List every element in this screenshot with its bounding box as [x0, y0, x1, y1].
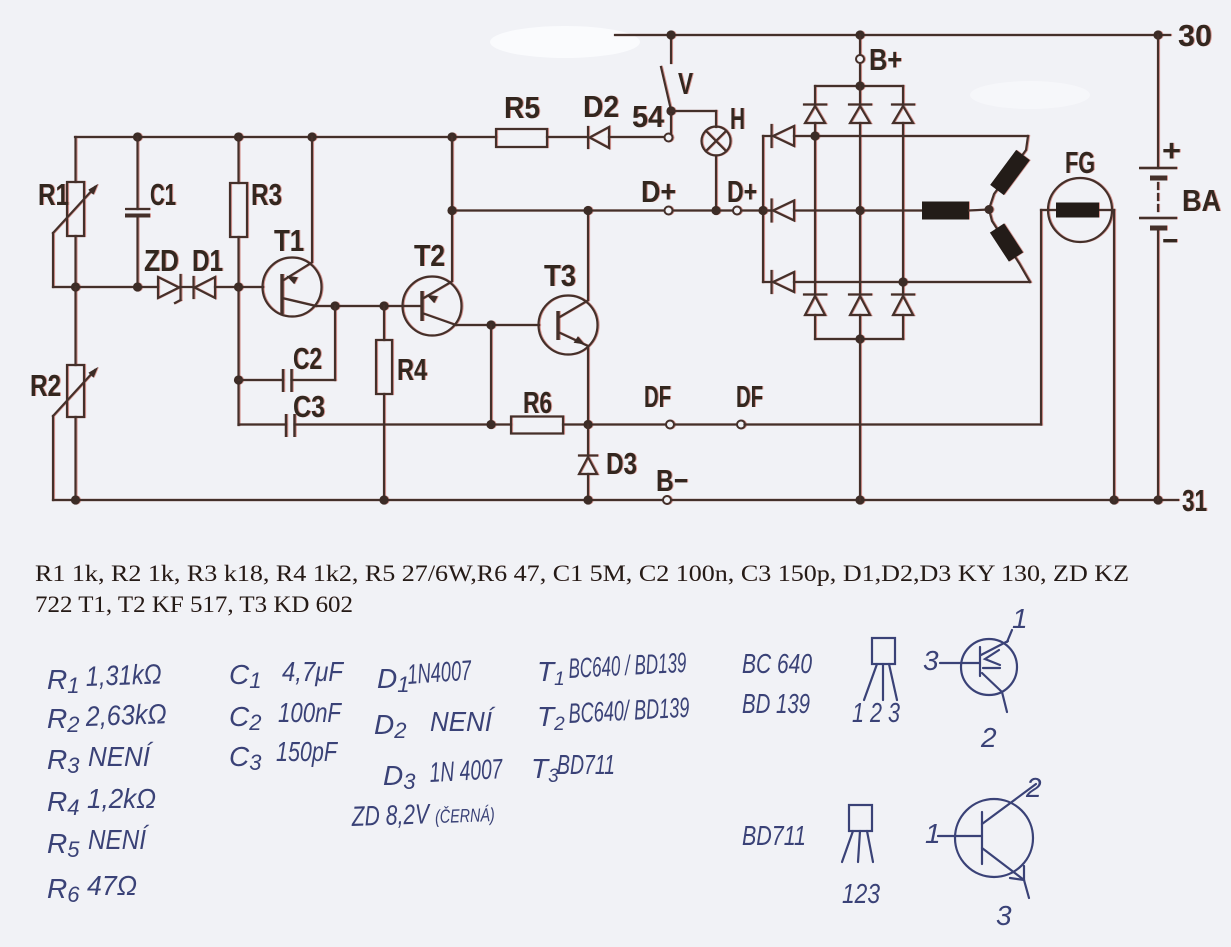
- junction on rail at T1 collector: [307, 132, 316, 141]
- resistor R5: [496, 129, 586, 147]
- rectifier diode top-left: [804, 86, 826, 294]
- svg-text:1,31kΩ: 1,31kΩ: [85, 658, 162, 692]
- svg-text:NENÍ: NENÍ: [430, 706, 496, 737]
- junction emitter row at C2 branch: [330, 301, 339, 310]
- wire: B+ drop from rail 30: [859, 35, 861, 86]
- svg-text:BC 640: BC 640: [742, 648, 812, 679]
- hw value R2: [47, 698, 167, 737]
- wire: D+ row: [452, 137, 771, 211]
- svg-text:1: 1: [925, 818, 941, 849]
- svg-text:C1: C1: [150, 177, 176, 212]
- svg-text:R4: R4: [397, 352, 428, 387]
- svg-text:R5: R5: [504, 90, 540, 125]
- junction at C2 tap: [234, 375, 243, 384]
- stator winding phase2 (horizontal): [922, 210, 989, 211]
- svg-text:DF: DF: [736, 379, 763, 414]
- svg-text:DF: DF: [644, 379, 671, 414]
- svg-text:+: +: [1162, 133, 1181, 168]
- hw value C2: [229, 697, 342, 735]
- svg-text:3: 3: [996, 900, 1012, 931]
- svg-text:BD711: BD711: [742, 820, 806, 851]
- hw value R5: [47, 824, 150, 862]
- field diode row3 (left): [763, 271, 1030, 293]
- junction base row at R3: [234, 282, 243, 291]
- svg-text:BC640 / BD139: BC640 / BD139: [568, 647, 687, 684]
- svg-text:C3: C3: [293, 389, 325, 424]
- junction on rail at R3: [234, 132, 243, 141]
- svg-text:BD711: BD711: [557, 749, 615, 780]
- junction D+ at T2: [447, 206, 456, 215]
- terminal D+ regulator (open circle): [665, 207, 673, 215]
- junction phase1: [810, 131, 819, 140]
- field winding FG: [1041, 178, 1114, 500]
- hw transistor sketch BD711 (NPN): [938, 784, 1036, 898]
- junction rail30 at switch: [666, 30, 675, 39]
- svg-text:R3: R3: [251, 177, 282, 212]
- svg-text:1N 4007: 1N 4007: [429, 753, 504, 788]
- wire: rail 30 top: [615, 34, 1170, 36]
- wire: T3 base row down to R6 row: [490, 325, 492, 425]
- wire: rectifier bottom bus: [815, 338, 903, 340]
- hw value T3: [531, 749, 615, 787]
- junction T3 base row: [486, 320, 495, 329]
- wire: DF row: [674, 423, 738, 425]
- terminal DF regulator (open circle): [666, 421, 674, 429]
- svg-text:3: 3: [923, 645, 939, 676]
- hw value T1: [537, 647, 687, 690]
- hw value D3: [383, 753, 504, 794]
- svg-text:V: V: [678, 66, 693, 101]
- terminal B+ (open circle): [856, 55, 864, 63]
- junction rail31 at R2: [71, 495, 80, 504]
- capacitor C2: [239, 306, 336, 392]
- svg-text:D1: D1: [192, 243, 223, 278]
- svg-text:31: 31: [1182, 483, 1207, 518]
- rectifier diode bottom-left: [804, 295, 826, 340]
- svg-text:D3: D3: [606, 446, 637, 481]
- svg-text:T2: T2: [414, 238, 445, 273]
- terminal 54 (open circle): [665, 134, 673, 142]
- lamp H: [702, 111, 731, 211]
- resistor R1 (variable): [53, 137, 98, 287]
- svg-text:T1: T1: [274, 223, 304, 258]
- svg-text:2: 2: [980, 722, 997, 753]
- field diode row1 (left): [763, 125, 1028, 147]
- resistor R4: [376, 306, 392, 500]
- hw value D2: [374, 706, 496, 743]
- field diode row2 (left): [763, 200, 922, 222]
- switch V: [661, 35, 716, 134]
- svg-text:47Ω: 47Ω: [87, 870, 137, 901]
- stator winding phase3 (lower diagonal): [989, 210, 1030, 283]
- svg-text:BA: BA: [1182, 183, 1221, 218]
- junction emitter row at R4: [379, 301, 388, 310]
- transistor T1 (PNP): [263, 137, 404, 317]
- transistor T3 (NPN): [539, 211, 598, 425]
- capacitor C3: [239, 414, 492, 437]
- wire: rail 31 bottom: [53, 499, 1178, 501]
- svg-text:−: −: [1162, 223, 1178, 258]
- diode D3: [579, 425, 597, 501]
- junction on rail at C1: [133, 132, 142, 141]
- junction rail31 at rectifier: [855, 495, 864, 504]
- terminal DF alternator (open circle): [737, 421, 745, 429]
- terminal B- (open circle): [663, 496, 671, 504]
- svg-text:D+: D+: [641, 174, 676, 209]
- hw value C1: [229, 656, 345, 693]
- hw value R3: [47, 741, 154, 778]
- stator winding phase1 (upper diagonal): [989, 136, 1028, 209]
- svg-text:150pF: 150pF: [276, 736, 338, 767]
- junction rail31 at battery: [1153, 495, 1162, 504]
- rectifier diode bottom-right: [892, 295, 914, 340]
- rectifier diode top-middle: [849, 86, 871, 294]
- hw transistor sketch BC640 (PNP): [940, 630, 1017, 712]
- svg-text:B−: B−: [656, 463, 688, 498]
- wire: DF to field winding: [745, 210, 1042, 425]
- junction top bus: [855, 81, 864, 90]
- svg-text:H: H: [730, 101, 745, 136]
- wire: rectifier top bus: [815, 85, 903, 87]
- hw value R4: [47, 783, 156, 820]
- svg-text:R6: R6: [523, 385, 552, 420]
- svg-text:2: 2: [1025, 772, 1042, 803]
- svg-text:B+: B+: [869, 42, 902, 77]
- transistor T2 (PNP): [403, 137, 540, 336]
- diode D2: [588, 127, 665, 148]
- svg-text:4,7μF: 4,7μF: [282, 656, 345, 687]
- svg-text:T3: T3: [544, 258, 576, 293]
- svg-text:R1: R1: [38, 177, 69, 212]
- hw value R1: [47, 658, 162, 698]
- junction bottom bus: [855, 334, 864, 343]
- rectifier diode bottom-middle: [849, 295, 871, 340]
- svg-text:1 2 3: 1 2 3: [852, 697, 900, 728]
- battery BA: [1139, 35, 1177, 500]
- hw value C3: [229, 736, 338, 775]
- svg-text:722 T1, T2 KF 517, T3 KD 602: 722 T1, T2 KF 517, T3 KD 602: [35, 592, 353, 618]
- junction D+ at T3 collector: [583, 206, 592, 215]
- svg-text:R1 1k, R2 1k, R3 k18, R4 1k2,: R1 1k, R2 1k, R3 k18, R4 1k2, R5 27/6W,R…: [35, 561, 1129, 587]
- junction D+ at lamp: [711, 206, 720, 215]
- svg-text:NENÍ: NENÍ: [88, 824, 150, 855]
- wire: D+ collector bus (left vertical): [762, 136, 764, 282]
- wire: base row (R1 wiper to T1 base): [53, 286, 158, 288]
- svg-text:100nF: 100nF: [278, 697, 342, 728]
- wire: R3 node down to C2/C3: [237, 287, 239, 425]
- hw sketch TO-126 package (BC640/BD139): [864, 638, 897, 700]
- terminal D+ alternator (open circle): [733, 207, 741, 215]
- hw value R6: [47, 870, 137, 907]
- svg-text:C2: C2: [293, 341, 322, 376]
- hw value T2: [537, 692, 690, 735]
- svg-text:BC640/ BD139: BC640/ BD139: [568, 692, 690, 729]
- junction D+ bus: [758, 206, 767, 215]
- svg-text:FG: FG: [1065, 145, 1095, 180]
- svg-text:BD 139: BD 139: [742, 688, 810, 719]
- hw value D1: [377, 655, 473, 697]
- svg-text:D+: D+: [727, 174, 757, 209]
- node: stator star point: [985, 205, 994, 214]
- junction rail30 at battery: [1153, 30, 1162, 39]
- junction R6 row at T2 collector branch: [486, 420, 495, 429]
- zener diode ZD: [158, 275, 193, 303]
- capacitor C1: [125, 137, 150, 287]
- junction rail30 at B+: [855, 30, 864, 39]
- wire: top-left supply rail: [75, 136, 496, 138]
- svg-text:54: 54: [632, 99, 665, 134]
- junction on rail at T2 branch: [447, 132, 456, 141]
- svg-text:123: 123: [842, 878, 880, 909]
- scan artifact: bright cloud: [490, 26, 640, 58]
- svg-text:30: 30: [1178, 18, 1212, 53]
- junction rail31 at D3: [583, 495, 592, 504]
- svg-text:1: 1: [1012, 603, 1028, 634]
- svg-text:2,63kΩ: 2,63kΩ: [84, 698, 167, 732]
- resistor R2 (variable): [53, 287, 98, 500]
- diode D1: [194, 277, 264, 298]
- junction phase3: [898, 277, 907, 286]
- junction rail31 at FG: [1109, 495, 1118, 504]
- svg-text:D2: D2: [583, 89, 619, 124]
- svg-text:ZD: ZD: [144, 243, 179, 278]
- junction phase2: [855, 206, 864, 215]
- svg-text:1N4007: 1N4007: [406, 655, 473, 690]
- hw sketch TO-220 package (BD711): [842, 805, 873, 862]
- junction R6 row at T3 emitter: [583, 420, 592, 429]
- rectifier diode top-right: [892, 86, 914, 294]
- svg-text:1,2kΩ: 1,2kΩ: [87, 783, 156, 814]
- resistor R6: [491, 417, 667, 434]
- svg-text:R2: R2: [30, 368, 61, 403]
- junction base row at C1: [133, 282, 142, 291]
- junction base row at R1/R2: [71, 282, 80, 291]
- svg-text:NENÍ: NENÍ: [88, 741, 154, 772]
- junction rail31 at R4: [379, 495, 388, 504]
- wire: bottom bus to rail 31: [859, 339, 861, 500]
- resistor R3: [230, 137, 247, 287]
